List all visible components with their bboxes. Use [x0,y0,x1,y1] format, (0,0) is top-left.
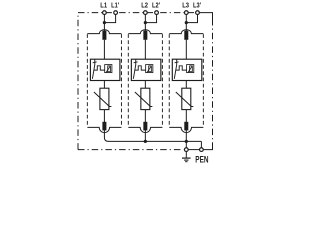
svg-text:PEN: PEN [195,153,208,164]
svg-text:L3′: L3′ [193,1,201,10]
svg-text:L1: L1 [100,1,107,10]
svg-text:L2: L2 [141,1,148,10]
svg-text:L1′: L1′ [111,1,119,10]
svg-text:L3: L3 [182,1,189,10]
svg-text:L2′: L2′ [152,1,160,10]
